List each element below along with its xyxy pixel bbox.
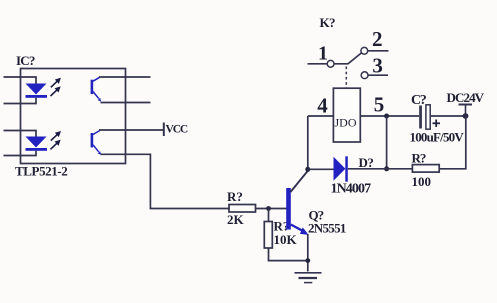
transistor Q? 2N5551 bbox=[286, 171, 308, 235]
svg-text:4: 4 bbox=[317, 94, 328, 118]
node: diode-row junction dot bbox=[384, 166, 389, 171]
svg-text:1N4007: 1N4007 bbox=[331, 182, 372, 197]
node: pin5 junction dot bbox=[384, 114, 389, 119]
optocoupler box IC? (TLP521-2) bbox=[21, 69, 126, 164]
wire: contact 3 lead bbox=[368, 74, 388, 76]
wire: contact 2 lead bbox=[368, 50, 389, 52]
wire: collector riser to pin 4 bbox=[307, 116, 309, 171]
svg-text:R?: R? bbox=[412, 151, 426, 166]
wire: pin 5 of relay coil bbox=[360, 115, 386, 117]
LED1 emission arrows bbox=[51, 79, 60, 96]
diode D? 1N4007 bbox=[334, 156, 348, 181]
resistor R? 2K body bbox=[229, 205, 256, 213]
svg-text:C?: C? bbox=[411, 93, 427, 108]
svg-text:IC?: IC? bbox=[16, 53, 35, 68]
relay contact circle 3 bbox=[361, 72, 368, 79]
svg-text:D?: D? bbox=[359, 155, 374, 170]
resistor R? 100 body bbox=[412, 165, 439, 173]
wire: node5 to capacitor bbox=[387, 115, 420, 117]
relay contact circle 1 bbox=[327, 60, 334, 67]
svg-text:TLP521-2: TLP521-2 bbox=[15, 164, 67, 179]
wire: junction to R10K bbox=[268, 209, 270, 222]
wire: node to R100 bbox=[387, 168, 413, 170]
relay coil JDO box bbox=[333, 88, 360, 142]
wire: collector node to diode anode bbox=[308, 168, 334, 170]
svg-text:2: 2 bbox=[372, 27, 383, 51]
wire: R10K to emitter rail bbox=[269, 248, 308, 261]
phototransistor channel 2 bbox=[91, 131, 102, 155]
wire: transistor2 collector to VCC bbox=[99, 129, 164, 131]
wire: relay common lead bbox=[308, 63, 328, 65]
node: base junction dot bbox=[266, 206, 271, 211]
svg-text:10K: 10K bbox=[274, 232, 298, 247]
svg-text:2N5551: 2N5551 bbox=[308, 221, 346, 236]
node: collector junction dot bbox=[305, 167, 310, 172]
svg-text:100: 100 bbox=[412, 174, 432, 189]
wire: emitter down to ground rail bbox=[307, 234, 309, 272]
phototransistor channel 1 bbox=[91, 77, 102, 101]
wire: node5 down to diode row bbox=[386, 116, 388, 169]
LED D1 of optocoupler (channel 1) bbox=[26, 84, 48, 98]
wire: LED2 cathode stub bbox=[4, 151, 37, 156]
VCC rail tick bbox=[163, 123, 165, 137]
svg-text:K?: K? bbox=[320, 15, 336, 30]
capacitor C? plates bbox=[419, 105, 430, 129]
svg-text:VCC: VCC bbox=[166, 124, 188, 136]
svg-text:5: 5 bbox=[374, 93, 385, 117]
node: emitter junction dot bbox=[305, 258, 310, 263]
wire: capacitor to DC24V node bbox=[430, 115, 465, 117]
wire: switch arm bbox=[334, 53, 361, 64]
dotted actuator link bbox=[345, 67, 347, 89]
LED D2 of optocoupler (channel 2) bbox=[26, 137, 48, 151]
resistor R? 10K body bbox=[264, 222, 272, 249]
svg-text:3: 3 bbox=[372, 53, 383, 77]
node: DC24V junction dot bbox=[463, 113, 469, 119]
wire: pin 4 of relay coil bbox=[308, 115, 334, 117]
svg-text:1: 1 bbox=[318, 43, 328, 65]
svg-text:DC24V: DC24V bbox=[447, 90, 485, 105]
wire: diode cathode to node bbox=[348, 168, 387, 170]
wire: transistor1 emitter stub bbox=[101, 102, 151, 104]
svg-text:2K: 2K bbox=[227, 212, 245, 227]
wire: R2K to base of Q bbox=[256, 208, 287, 210]
LED2 emission arrows bbox=[51, 132, 60, 149]
ground bbox=[295, 273, 322, 283]
wire: LED1 anode stub bbox=[4, 77, 37, 84]
svg-text:R?: R? bbox=[227, 189, 243, 204]
svg-text:100uF/50V: 100uF/50V bbox=[410, 129, 465, 144]
capacitor plus sign bbox=[433, 120, 441, 128]
wire: LED1 cathode stub bbox=[4, 98, 37, 104]
svg-text:JDO: JDO bbox=[335, 116, 357, 130]
wire: transistor2 emitter to base resistor bbox=[101, 154, 230, 208]
DC24V terminal stub bbox=[459, 105, 473, 117]
relay contact circle 2 bbox=[361, 47, 368, 54]
wire: transistor1 collector stub bbox=[99, 76, 151, 78]
wire: R100 to DC24V rail bbox=[439, 116, 466, 169]
wire: LED2 anode stub bbox=[4, 131, 37, 137]
